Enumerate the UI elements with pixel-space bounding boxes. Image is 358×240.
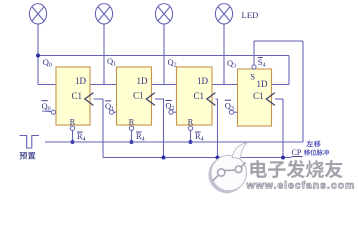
clock dynamic-input caret of FF4: [266, 93, 275, 106]
wire Qbar0 stub: [42, 110, 51, 113]
preset negative pulse symbol: [20, 136, 40, 149]
label 左移 (shift left): [306, 141, 313, 147]
reset input bubble of FF1: [70, 126, 74, 130]
wire FF1 1D input from Q1: [90, 84, 117, 86]
wire S4 drop: [253, 41, 255, 65]
reset input bubble of FF3: [188, 126, 192, 130]
lamp indicator LED1 (circle with X): [95, 4, 112, 24]
wire reset/preset bus R4: [45, 141, 303, 143]
lamp indicator LED3 (circle with X): [215, 4, 232, 24]
watermark logo circle: [211, 155, 247, 191]
wire lamp LED3 stem / node Q3 vertical: [223, 24, 225, 85]
wire clock stub FF2: [155, 98, 163, 100]
D flip-flop FF1 body: [56, 67, 90, 125]
wire clock stub FF4: [275, 98, 283, 100]
svg-text:S: S: [250, 72, 255, 82]
wire bus to FF4 1D input (right drop): [288, 56, 290, 85]
wire clock drop FF2: [163, 99, 165, 158]
clock dynamic-input caret of FF1: [85, 93, 94, 106]
watermark logo connector icon: [213, 162, 246, 181]
inverted output bubble Q̄3 of FF4: [229, 110, 233, 114]
label 移位脉冲 (shift pulse): [304, 149, 310, 155]
svg-text:C1: C1: [71, 91, 82, 101]
wire FF3 1D input from Q3: [212, 84, 238, 86]
inverted output bubble Q̄2 of FF3: [169, 110, 173, 114]
wire Qbar1 stub: [114, 111, 117, 113]
wire clock drop FF3: [217, 99, 219, 158]
svg-text:C1: C1: [253, 91, 264, 101]
junction at Q0: [36, 54, 40, 58]
set input bubble S4 of FF4: [252, 65, 256, 69]
wire reset tap FF2: [131, 131, 133, 143]
junction reset tap FF1: [71, 140, 75, 144]
wire lamp LED1 stem / node Q1 vertical: [103, 24, 105, 85]
wire lamp LED2 stem / node Q2 vertical: [163, 24, 165, 85]
wire clock stub FF1: [94, 98, 103, 100]
wire CP clock line: [103, 157, 292, 159]
wire lamp LED0 stem / node Q0 vertical: [37, 24, 39, 85]
watermark logo tail: [232, 143, 247, 159]
clock dynamic-input caret of FF3: [207, 93, 216, 106]
wire clock stub FF3: [216, 98, 218, 100]
junction clock line: [281, 156, 285, 160]
svg-text:1D: 1D: [75, 76, 87, 86]
svg-text:1D: 1D: [197, 76, 209, 86]
label 预置 (preset): [19, 152, 27, 159]
D flip-flop FF3 body: [177, 67, 213, 125]
wire preset bus top run to S4: [254, 40, 303, 42]
svg-text:1D: 1D: [137, 76, 149, 86]
lamp indicator LED2 (circle with X): [155, 4, 172, 24]
junction reset tap FF3: [189, 140, 193, 144]
wire reset tap FF1: [72, 131, 74, 143]
svg-text:1D: 1D: [257, 79, 269, 89]
wire reset tap FF3: [190, 131, 192, 143]
wire preset bus right riser: [302, 41, 304, 142]
inverted output bubble Q̄0 of FF1: [51, 110, 55, 114]
wire Q output bus (horizontal): [38, 55, 289, 57]
D flip-flop FF2 body: [117, 67, 152, 125]
svg-text:R: R: [129, 116, 135, 126]
clock dynamic-input caret of FF2: [146, 93, 155, 106]
svg-text:LED: LED: [242, 10, 259, 20]
junction reset tap FF2: [130, 140, 134, 144]
wire FF1 Q output to box (left feed): [38, 84, 56, 86]
svg-text:R: R: [188, 116, 194, 126]
wire FF2 1D input from Q2: [152, 84, 177, 86]
svg-text:CP: CP: [292, 148, 302, 157]
junction clock line: [162, 156, 166, 160]
wire clock drop FF1: [102, 99, 104, 158]
D flip-flop FF4 body: [238, 69, 272, 126]
wire Qbar3 stub: [234, 111, 238, 113]
svg-text:C1: C1: [193, 91, 204, 101]
wire clock drop FF4: [282, 99, 284, 158]
wire Qbar2 stub: [173, 111, 176, 113]
reset input bubble of FF2: [129, 126, 133, 130]
watermark text 电子发烧友: [251, 161, 268, 179]
svg-text:C1: C1: [133, 91, 144, 101]
junction clock line: [216, 156, 220, 160]
lamp indicator LED0 (circle with X): [29, 4, 46, 24]
svg-text:www.elecfans.com: www.elecfans.com: [246, 180, 356, 192]
inverted output bubble Q̄1 of FF2: [109, 110, 113, 114]
watermark logo shadow: [208, 156, 245, 193]
svg-text:R: R: [70, 116, 76, 126]
